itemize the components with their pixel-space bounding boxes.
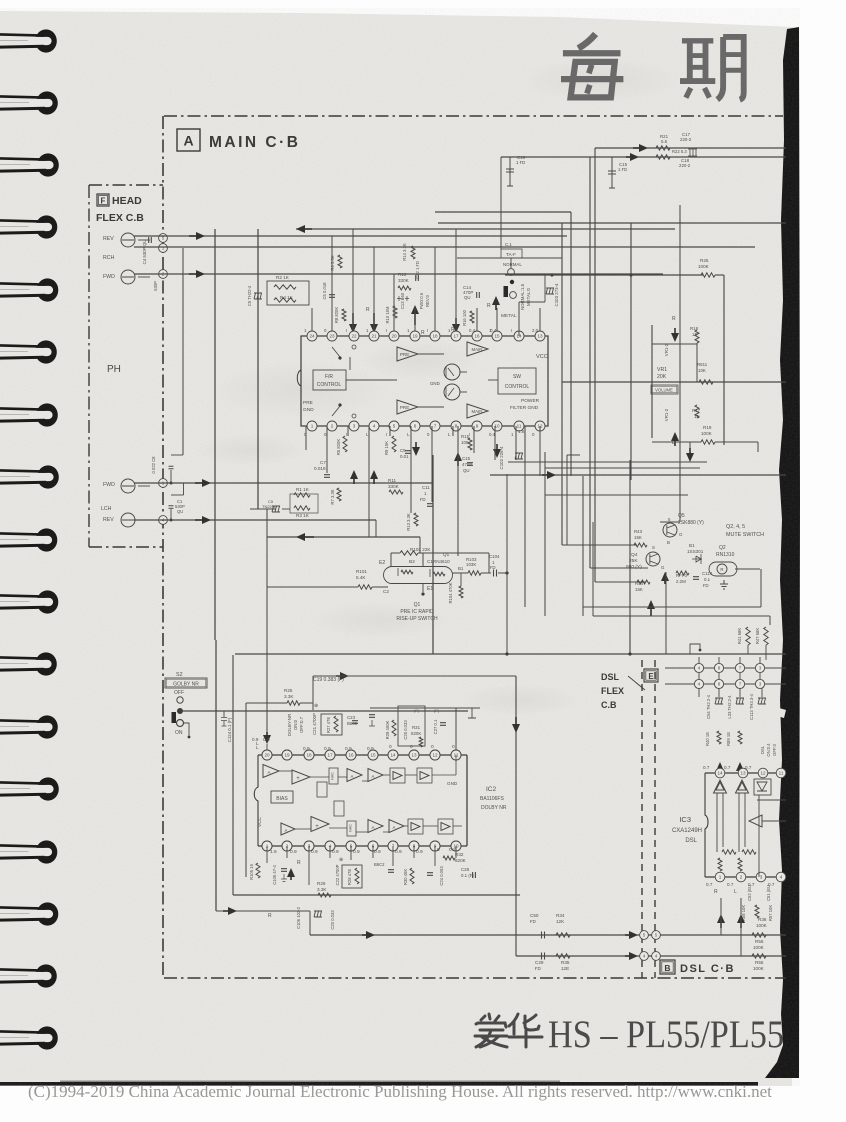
svg-text:14: 14 bbox=[717, 771, 723, 776]
svg-text:C102 226-4: C102 226-4 bbox=[499, 446, 504, 470]
svg-text:330K: 330K bbox=[388, 484, 400, 489]
svg-text:R7 3.3K: R7 3.3K bbox=[330, 489, 335, 504]
svg-text:(C)1994-2019 China Academic Jo: (C)1994-2019 China Academic Journal Elec… bbox=[28, 1082, 633, 1101]
svg-text:ON: ON bbox=[175, 730, 183, 736]
svg-text:http://www.cnki.net: http://www.cnki.net bbox=[637, 1082, 772, 1101]
svg-text:C50: C50 bbox=[530, 913, 539, 918]
svg-text:FLEX C.B: FLEX C.B bbox=[96, 212, 144, 224]
svg-text:E2: E2 bbox=[379, 560, 385, 566]
svg-text:Q1: Q1 bbox=[414, 602, 421, 608]
svg-text:R: R bbox=[366, 307, 370, 313]
svg-text:1.6: 1.6 bbox=[270, 849, 277, 855]
svg-text:C24 0.053: C24 0.053 bbox=[439, 866, 444, 886]
svg-text:0.9: 0.9 bbox=[416, 849, 423, 855]
svg-text:R: R bbox=[720, 567, 723, 572]
svg-text:C15: C15 bbox=[462, 456, 471, 461]
svg-text:13: 13 bbox=[411, 753, 417, 758]
svg-text:E1: E1 bbox=[427, 586, 433, 592]
svg-text:B1: B1 bbox=[458, 566, 464, 571]
svg-text:R57 10K: R57 10K bbox=[768, 905, 773, 922]
svg-text:CONTROL: CONTROL bbox=[317, 382, 342, 388]
svg-text:880 (Y): 880 (Y) bbox=[626, 564, 642, 570]
svg-text:R25: R25 bbox=[284, 688, 293, 693]
svg-text:(F): (F) bbox=[414, 708, 420, 713]
svg-text:RN1310: RN1310 bbox=[716, 552, 735, 558]
svg-text:S: S bbox=[652, 545, 655, 550]
svg-text:METAL:0: METAL:0 bbox=[526, 287, 531, 306]
svg-text:QU: QU bbox=[464, 295, 471, 300]
svg-text:100K: 100K bbox=[756, 923, 768, 928]
svg-text:ҒD: ҒD bbox=[420, 497, 426, 502]
svg-text:I: I bbox=[427, 328, 428, 333]
svg-text:B1: B1 bbox=[689, 543, 695, 548]
svg-text:TA-F: TA-F bbox=[506, 252, 516, 257]
svg-text:C28: C28 bbox=[461, 867, 470, 872]
svg-text:C11: C11 bbox=[422, 485, 430, 490]
svg-text:R: R bbox=[714, 889, 718, 895]
svg-text:PRE: PRE bbox=[400, 405, 409, 410]
svg-text:G: G bbox=[679, 532, 683, 537]
svg-text:R56: R56 bbox=[755, 939, 764, 944]
svg-text:0.9: 0.9 bbox=[303, 746, 310, 752]
svg-text:C20 0.033: C20 0.033 bbox=[330, 910, 335, 930]
svg-text:R9 15K: R9 15K bbox=[384, 441, 389, 455]
svg-text:100K: 100K bbox=[753, 945, 765, 950]
svg-text:HS – PL55/PL55: HS – PL55/PL55 bbox=[548, 1013, 784, 1056]
svg-text:MUTE SWITCH: MUTE SWITCH bbox=[726, 532, 764, 538]
svg-text:DOLBY-NR: DOLBY-NR bbox=[287, 714, 292, 736]
svg-text:C22 4700P: C22 4700P bbox=[335, 864, 340, 885]
svg-text:11: 11 bbox=[779, 771, 784, 776]
svg-text:ҒD: ҒD bbox=[490, 565, 496, 570]
svg-text:RISE-UP SWITCH: RISE-UP SWITCH bbox=[396, 616, 438, 622]
svg-text:HEAD: HEAD bbox=[112, 195, 142, 207]
svg-text:0.7: 0.7 bbox=[706, 882, 713, 887]
svg-text:B2: B2 bbox=[409, 559, 415, 565]
svg-text:3.3K: 3.3K bbox=[284, 694, 294, 699]
svg-text:12E: 12E bbox=[561, 966, 569, 971]
svg-text:REV: REV bbox=[103, 236, 114, 242]
svg-text:R: R bbox=[421, 330, 425, 336]
svg-text:0.9: 0.9 bbox=[290, 849, 297, 855]
svg-text:8: 8 bbox=[455, 424, 458, 429]
svg-text:C4 530P QU: C4 530P QU bbox=[142, 240, 147, 265]
svg-text:C29: C29 bbox=[535, 960, 544, 965]
svg-text:R13 3.3K: R13 3.3K bbox=[406, 513, 411, 531]
svg-text:15K: 15K bbox=[634, 535, 642, 540]
svg-text:330K: 330K bbox=[398, 278, 410, 283]
svg-text:R40 1E: R40 1E bbox=[705, 732, 710, 746]
svg-text:Q4: Q4 bbox=[631, 552, 638, 558]
svg-text:2: 2 bbox=[331, 424, 334, 429]
svg-text:0.9: 0.9 bbox=[353, 849, 360, 855]
svg-text:16: 16 bbox=[348, 753, 354, 758]
svg-text:R28 47E: R28 47E bbox=[347, 869, 352, 886]
svg-text:0.9: 0.9 bbox=[332, 849, 339, 855]
svg-text:QU: QU bbox=[177, 509, 183, 514]
svg-text:A: A bbox=[183, 133, 193, 149]
svg-text:B: B bbox=[664, 963, 670, 973]
svg-text:A: A bbox=[393, 825, 396, 830]
svg-text:C21 4700P: C21 4700P bbox=[312, 713, 317, 735]
svg-text:C19 0.383 (F): C19 0.383 (F) bbox=[313, 677, 344, 683]
svg-text:A: A bbox=[372, 774, 375, 779]
svg-text:0: 0 bbox=[389, 744, 392, 750]
svg-text:Q1: Q1 bbox=[443, 552, 450, 557]
svg-text:Q5: Q5 bbox=[678, 513, 685, 519]
svg-text:1 ҒD: 1 ҒD bbox=[618, 167, 627, 172]
svg-text:3.3K: 3.3K bbox=[317, 887, 327, 892]
svg-text:12K: 12K bbox=[556, 919, 565, 924]
svg-text:0.7: 0.7 bbox=[703, 765, 710, 770]
svg-text:+: + bbox=[315, 824, 319, 830]
svg-text:CXA1249H: CXA1249H bbox=[672, 828, 702, 834]
svg-text:(F): (F) bbox=[434, 708, 440, 713]
svg-text:POWER: POWER bbox=[521, 398, 540, 404]
svg-text:C5 TH22-4: C5 TH22-4 bbox=[247, 285, 252, 306]
svg-text:0.7: 0.7 bbox=[724, 765, 731, 770]
svg-text:IC3: IC3 bbox=[679, 815, 691, 824]
svg-text:R29 450K: R29 450K bbox=[385, 720, 390, 739]
svg-text:NAC: NAC bbox=[349, 824, 353, 832]
svg-text:14: 14 bbox=[390, 753, 396, 758]
svg-text:20K: 20K bbox=[657, 374, 667, 380]
svg-text:0.9: 0.9 bbox=[395, 849, 402, 855]
svg-text:7: 7 bbox=[434, 424, 437, 429]
svg-text:2SK880 (Y): 2SK880 (Y) bbox=[678, 520, 704, 526]
svg-text:C113 TH3.3-4: C113 TH3.3-4 bbox=[749, 693, 754, 720]
svg-text:13: 13 bbox=[537, 334, 543, 339]
svg-text:C103 273-4: C103 273-4 bbox=[554, 283, 559, 307]
svg-text:DOLBY NR: DOLBY NR bbox=[481, 805, 507, 811]
svg-text:ON:0: ON:0 bbox=[293, 719, 298, 730]
svg-text:530P: 530P bbox=[153, 281, 158, 291]
svg-text:⊕: ⊕ bbox=[314, 703, 318, 709]
svg-text:NAC: NAC bbox=[331, 772, 335, 780]
svg-text:0: 0 bbox=[431, 744, 434, 750]
svg-text:RCH: RCH bbox=[103, 255, 114, 261]
svg-text:+: + bbox=[296, 776, 300, 782]
svg-text:B: B bbox=[667, 540, 670, 545]
svg-text:R36: R36 bbox=[758, 917, 767, 922]
svg-text:FWD: FWD bbox=[103, 482, 115, 488]
svg-text:E: E bbox=[648, 672, 654, 681]
svg-text:R19: R19 bbox=[703, 425, 712, 430]
svg-text:VCC: VCC bbox=[257, 816, 262, 826]
svg-text:A: A bbox=[268, 770, 271, 775]
svg-text:2: 2 bbox=[740, 875, 743, 880]
svg-text:C1RN4610: C1RN4610 bbox=[427, 559, 450, 564]
svg-text:VOLUME: VOLUME bbox=[655, 388, 673, 393]
svg-text:R104 470K: R104 470K bbox=[448, 582, 453, 603]
svg-text:19: 19 bbox=[284, 753, 290, 758]
svg-text:R12: R12 bbox=[398, 272, 407, 277]
svg-text:DSL: DSL bbox=[685, 838, 697, 844]
svg-text:ҒD: ҒD bbox=[535, 966, 541, 971]
svg-text:22: 22 bbox=[351, 334, 357, 339]
svg-text:PRE: PRE bbox=[303, 400, 313, 406]
svg-text:GOLBY NR: GOLBY NR bbox=[173, 682, 199, 688]
svg-text:DSL: DSL bbox=[601, 672, 620, 682]
svg-text:CONTROL: CONTROL bbox=[505, 384, 530, 390]
svg-text:C51 (EU: C51 (EU bbox=[766, 885, 771, 901]
svg-text:MAIN: MAIN bbox=[472, 347, 483, 352]
svg-text:4: 4 bbox=[780, 875, 783, 880]
svg-text:L33 TH2.2-4: L33 TH2.2-4 bbox=[727, 695, 732, 719]
svg-text:0.9: 0.9 bbox=[374, 849, 381, 855]
svg-text:SW: SW bbox=[513, 374, 521, 380]
svg-text:C23: C23 bbox=[347, 715, 356, 720]
svg-text:11: 11 bbox=[517, 424, 522, 429]
svg-text:R: R bbox=[268, 913, 272, 919]
svg-text:OFF:0: OFF:0 bbox=[772, 743, 777, 756]
svg-text:R2 1K: R2 1K bbox=[276, 275, 290, 280]
svg-text:R55: R55 bbox=[755, 960, 764, 965]
svg-text:0.01: 0.01 bbox=[400, 454, 409, 459]
svg-text:C25 0.033: C25 0.033 bbox=[403, 720, 408, 740]
svg-text:ҒD: ҒD bbox=[530, 919, 536, 924]
svg-text:VR1-2: VR1-2 bbox=[664, 408, 669, 421]
svg-text:0.9: 0.9 bbox=[367, 746, 374, 752]
svg-text:VCC: VCC bbox=[536, 354, 548, 360]
svg-text:12: 12 bbox=[432, 753, 438, 758]
svg-text:R31: R31 bbox=[412, 725, 421, 730]
svg-text:FLEX: FLEX bbox=[601, 686, 624, 696]
svg-text:1SS301: 1SS301 bbox=[687, 549, 704, 554]
svg-text:0: 0 bbox=[452, 744, 455, 750]
svg-text:REV:0: REV:0 bbox=[425, 294, 430, 307]
svg-text:R43: R43 bbox=[634, 529, 643, 534]
svg-text:I: I bbox=[469, 432, 470, 437]
svg-text:A: A bbox=[351, 774, 354, 779]
svg-text:220-2: 220-2 bbox=[679, 163, 691, 168]
svg-text:F/R: F/R bbox=[325, 374, 333, 380]
svg-text:METAL: METAL bbox=[501, 313, 517, 319]
svg-text:S2: S2 bbox=[176, 672, 183, 678]
svg-text:GND: GND bbox=[447, 781, 458, 786]
svg-text:L: L bbox=[734, 889, 737, 895]
svg-text:L: L bbox=[672, 440, 675, 446]
svg-text:R35: R35 bbox=[561, 960, 570, 965]
svg-text:0.9: 0.9 bbox=[345, 746, 352, 752]
svg-text:NORMAL:1.5: NORMAL:1.5 bbox=[520, 283, 525, 310]
svg-text:R11: R11 bbox=[388, 478, 397, 483]
svg-text:I: I bbox=[511, 328, 512, 333]
svg-text:820K: 820K bbox=[455, 858, 467, 863]
svg-text:R41 68K: R41 68K bbox=[737, 628, 742, 645]
svg-text:0.1: 0.1 bbox=[704, 577, 711, 582]
svg-text:R101: R101 bbox=[356, 569, 367, 574]
svg-text:1: 1 bbox=[719, 875, 722, 880]
svg-text:0.4: 0.4 bbox=[469, 328, 476, 333]
svg-text:C13 B60: C13 B60 bbox=[400, 292, 405, 309]
svg-text:23: 23 bbox=[329, 334, 335, 339]
svg-text:C114: C114 bbox=[702, 571, 713, 576]
svg-text:R18: R18 bbox=[690, 326, 699, 331]
svg-text:24: 24 bbox=[309, 334, 315, 339]
svg-text:21: 21 bbox=[371, 334, 377, 339]
svg-text:C52 (EU: C52 (EU bbox=[747, 885, 752, 901]
svg-text:R8 820K: R8 820K bbox=[334, 307, 339, 324]
svg-text:I: I bbox=[386, 328, 387, 333]
svg-text:REV: REV bbox=[103, 517, 114, 523]
svg-text:C27 0.1: C27 0.1 bbox=[433, 719, 438, 734]
svg-text:F: F bbox=[101, 197, 106, 206]
svg-text:20: 20 bbox=[264, 753, 270, 758]
svg-text:6: 6 bbox=[414, 424, 417, 429]
svg-text:0.9: 0.9 bbox=[311, 849, 318, 855]
svg-text:1 ҒD: 1 ҒD bbox=[516, 160, 525, 165]
svg-text:R22 5.3: R22 5.3 bbox=[672, 149, 687, 154]
svg-text:3: 3 bbox=[353, 424, 356, 429]
svg-text:18: 18 bbox=[306, 753, 312, 758]
svg-text:DSL: DSL bbox=[760, 745, 765, 754]
svg-text:R25: R25 bbox=[700, 258, 709, 263]
svg-text:R16 100: R16 100 bbox=[462, 309, 467, 326]
svg-text:2.2M: 2.2M bbox=[676, 579, 686, 584]
svg-text:DSL C·B: DSL C·B bbox=[680, 963, 735, 975]
svg-text:R26: R26 bbox=[317, 881, 326, 886]
svg-text:ҒD: ҒD bbox=[703, 583, 709, 588]
svg-text:GND: GND bbox=[430, 381, 440, 386]
svg-text:3: 3 bbox=[760, 875, 763, 880]
svg-text:R27 47E: R27 47E bbox=[326, 717, 331, 734]
svg-text:100K: 100K bbox=[753, 966, 765, 971]
svg-text:20: 20 bbox=[391, 334, 397, 339]
svg-text:BA1106FS: BA1106FS bbox=[480, 796, 504, 802]
svg-text:FWD:0.6: FWD:0.6 bbox=[419, 292, 424, 309]
svg-text:B6C2: B6C2 bbox=[374, 862, 385, 867]
svg-text:5: 5 bbox=[393, 424, 396, 429]
svg-text:A: A bbox=[372, 825, 375, 830]
svg-text:C54 TH2.2-4: C54 TH2.2-4 bbox=[706, 694, 711, 719]
svg-text:R: R bbox=[672, 316, 676, 322]
svg-text:OFF:0.7: OFF:0.7 bbox=[299, 716, 304, 733]
svg-text:R30 45K: R30 45K bbox=[403, 869, 408, 886]
svg-text:QU: QU bbox=[463, 468, 470, 473]
svg-text:R: R bbox=[487, 303, 491, 309]
svg-text:R811: R811 bbox=[697, 362, 708, 367]
svg-text:0.018: 0.018 bbox=[314, 466, 326, 471]
svg-text:VR1: VR1 bbox=[657, 367, 667, 373]
svg-text:RFF0: RFF0 bbox=[676, 573, 688, 578]
svg-text:100K: 100K bbox=[701, 431, 713, 436]
svg-text:OFF: OFF bbox=[174, 690, 184, 696]
svg-text:15: 15 bbox=[370, 753, 376, 758]
svg-text:R1 1K: R1 1K bbox=[296, 487, 310, 492]
svg-text:C6 0.018: C6 0.018 bbox=[322, 282, 327, 300]
svg-text:C106 102-2: C106 102-2 bbox=[296, 906, 301, 929]
svg-text:5.5: 5.5 bbox=[661, 139, 668, 144]
svg-text:C124 0.1 (F): C124 0.1 (F) bbox=[227, 717, 232, 742]
svg-text:12: 12 bbox=[760, 771, 766, 776]
svg-text:15: 15 bbox=[494, 334, 500, 339]
svg-text:4: 4 bbox=[373, 424, 376, 429]
svg-text:0: 0 bbox=[437, 847, 440, 853]
svg-text:220-2: 220-2 bbox=[680, 137, 692, 142]
svg-text:19: 19 bbox=[412, 334, 418, 339]
svg-text:PRE: PRE bbox=[400, 352, 409, 357]
svg-text:R34: R34 bbox=[556, 913, 565, 918]
svg-text:15K: 15K bbox=[635, 587, 643, 592]
svg-text:ON:0.4: ON:0.4 bbox=[766, 743, 771, 757]
svg-text:100: 100 bbox=[461, 440, 469, 445]
svg-text:LCH: LCH bbox=[101, 506, 112, 512]
svg-text:R5 820K: R5 820K bbox=[336, 439, 341, 456]
svg-text:18: 18 bbox=[432, 334, 438, 339]
svg-text:Q2: Q2 bbox=[719, 545, 726, 551]
svg-text:⊕: ⊕ bbox=[339, 857, 343, 863]
svg-text:C.B: C.B bbox=[601, 700, 617, 710]
svg-text:0.022 C8: 0.022 C8 bbox=[151, 456, 156, 474]
svg-text:0.9: 0.9 bbox=[263, 737, 270, 743]
svg-text:C2: C2 bbox=[383, 589, 389, 594]
svg-text:FWD: FWD bbox=[103, 274, 115, 280]
svg-text:FILTER GND: FILTER GND bbox=[510, 405, 539, 411]
svg-text:R15: R15 bbox=[461, 434, 470, 439]
svg-text:A: A bbox=[285, 828, 288, 833]
svg-text:PRE IC RAPID: PRE IC RAPID bbox=[400, 609, 434, 615]
svg-text:C.1: C.1 bbox=[505, 242, 512, 247]
svg-text:10K: 10K bbox=[698, 368, 706, 373]
svg-text:16: 16 bbox=[474, 334, 480, 339]
svg-text:C7: C7 bbox=[320, 460, 326, 465]
svg-text:L: L bbox=[256, 741, 259, 746]
svg-text:GND: GND bbox=[303, 407, 314, 413]
svg-text:0.9: 0.9 bbox=[324, 746, 331, 752]
svg-text:R105 15: R105 15 bbox=[249, 863, 254, 880]
svg-text:PH: PH bbox=[107, 364, 121, 375]
svg-text:C105 47-4: C105 47-4 bbox=[272, 865, 277, 885]
svg-text:0.7: 0.7 bbox=[727, 882, 734, 887]
svg-text:NORMAL: NORMAL bbox=[503, 262, 522, 267]
svg-text:2.0: 2.0 bbox=[532, 328, 539, 333]
svg-text:17: 17 bbox=[327, 753, 333, 758]
svg-text:I: I bbox=[346, 432, 347, 437]
svg-text:9: 9 bbox=[476, 424, 479, 429]
svg-text:TN22-4: TN22-4 bbox=[262, 504, 276, 509]
svg-text:R10 15M: R10 15M bbox=[385, 306, 390, 324]
svg-text:R14 3.3K: R14 3.3K bbox=[402, 243, 407, 261]
svg-text:103K: 103K bbox=[466, 562, 476, 567]
svg-text:0: 0 bbox=[410, 744, 413, 750]
svg-text:I: I bbox=[346, 328, 347, 333]
svg-text:13: 13 bbox=[740, 771, 746, 776]
svg-text:R: R bbox=[297, 860, 301, 866]
svg-text:MAIN: MAIN bbox=[472, 409, 483, 414]
svg-text:1.8: 1.8 bbox=[518, 429, 525, 434]
svg-text:G: G bbox=[661, 565, 665, 570]
svg-text:R89 1E: R89 1E bbox=[726, 732, 731, 746]
svg-text:VR1-2: VR1-2 bbox=[664, 343, 669, 356]
svg-text:100K: 100K bbox=[698, 264, 710, 269]
svg-text:IC2: IC2 bbox=[486, 786, 497, 793]
svg-text:5.4K: 5.4K bbox=[356, 575, 366, 580]
svg-text:1: 1 bbox=[311, 424, 314, 429]
svg-text:R3 1K: R3 1K bbox=[296, 513, 310, 518]
svg-text:820K: 820K bbox=[411, 731, 421, 736]
svg-text:I: I bbox=[386, 432, 387, 437]
svg-text:R47 68K: R47 68K bbox=[755, 628, 760, 645]
svg-text:MAIN C·B: MAIN C·B bbox=[209, 134, 300, 151]
svg-text:Q2, 4, 5: Q2, 4, 5 bbox=[726, 524, 745, 530]
svg-text:C104: C104 bbox=[489, 554, 500, 559]
svg-text:BIAS: BIAS bbox=[276, 796, 288, 802]
svg-text:17: 17 bbox=[453, 334, 459, 339]
